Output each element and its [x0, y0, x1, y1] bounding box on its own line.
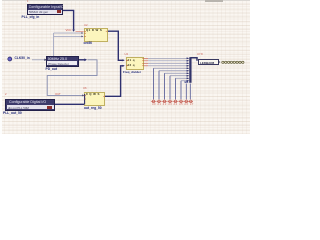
frequency divider U4 (yellow block)	[0, 0, 1, 1]
wire U5 output to U6 junction	[55, 103, 85, 105]
LED bar driver U7 label box	[198, 59, 219, 65]
LED D4	[167, 99, 172, 102]
bus net label B8	[185, 81, 189, 85]
net label PD_out	[46, 68, 58, 72]
bus entry row 8	[187, 75, 190, 77]
wire arrowhead at U2 clock pin	[72, 30, 75, 32]
LED bar segment 1	[222, 61, 224, 63]
bus entry row 2	[187, 60, 190, 62]
wire feedback loop U3 to register U6	[47, 60, 97, 96]
node CLK50 input terminal	[8, 57, 12, 61]
pin ticks U4 outputs	[142, 58, 144, 66]
wires bus taps vertical drops to LEDs D1-D6	[154, 68, 182, 99]
value label out_reg_50	[84, 107, 102, 111]
reference designator U6	[83, 88, 86, 91]
pin stub U2 pin 1	[76, 30, 84, 32]
arrowhead at U3 input	[44, 59, 46, 61]
reference designator U4	[125, 54, 128, 57]
LED D1	[151, 99, 156, 102]
value label Freq_divider	[123, 71, 141, 75]
reference designator 2 for U5	[5, 94, 7, 97]
LED D6	[178, 99, 183, 102]
wire input node to phase detector U3	[32, 59, 45, 61]
LED bar segment 5	[233, 61, 235, 63]
wire U6 output up to divider U4 pin 2	[105, 66, 124, 97]
wires bus taps horizontal runs	[154, 68, 188, 81]
wire junction vertical at U6 input	[84, 94, 86, 105]
net label VCC	[66, 29, 72, 32]
block U5 configurable digital IO (bottom left)	[0, 0, 1, 1]
net label PLL_cfg_in	[22, 16, 40, 20]
wire bus to LED bar U7	[190, 58, 197, 61]
wire U1 output to counter U2 clock pin	[63, 10, 74, 29]
wires bus end drops to LEDs D7-D8	[186, 84, 190, 100]
arrowhead at U6 feedback pin	[82, 94, 84, 96]
value labels d0-d7 under LEDs	[152, 104, 194, 107]
pin ticks U4 inputs	[126, 60, 128, 66]
pin stubs U4 outputs q0-q3	[144, 58, 148, 66]
reference designator U2	[84, 25, 87, 28]
net label OUT	[55, 94, 61, 97]
bus entry row 1	[187, 57, 190, 59]
LED D7	[184, 99, 189, 102]
bus entry row 7	[187, 72, 190, 74]
block U1 configurable input (top left)	[0, 0, 1, 1]
arrowhead on U3 output stub	[84, 58, 87, 61]
LED bar segment 3	[227, 61, 229, 63]
bus vertical bar	[189, 57, 191, 83]
arrowheads at U2 pins 2 and 3	[81, 32, 83, 37]
bus entry row 3	[187, 62, 190, 64]
wire U2 output to divider U4 pin 1	[108, 31, 124, 60]
LED D8	[189, 99, 193, 102]
bus entry row 9	[187, 77, 190, 79]
arrowhead at U4 pin 2	[122, 65, 124, 67]
pin ticks U2 pins 1-3	[84, 31, 86, 36]
reference designator 1 for U1	[27, 1, 29, 4]
wire U3 output stub	[79, 59, 85, 61]
LED D2	[156, 99, 161, 102]
LED D3	[162, 99, 167, 102]
wires U4 outputs to bus entries	[148, 58, 187, 66]
pin ticks U6 pins	[84, 95, 105, 99]
LED D5	[173, 99, 178, 102]
node label CLK50_in	[15, 57, 30, 61]
net label PLL_out_50	[3, 112, 22, 116]
bus entry row 5	[187, 67, 190, 69]
wire to U2 pin 2	[54, 32, 83, 34]
value label cnt50	[84, 42, 93, 46]
bus entry row 4	[187, 65, 190, 67]
LED bar segment 6	[236, 61, 238, 63]
LED bar segment 2	[225, 61, 227, 63]
LED bar segment 4	[230, 61, 232, 63]
reference designator U7	[197, 54, 203, 57]
arrowhead at LED bar U7 input	[219, 61, 221, 63]
arrowhead at U4 pin 1	[122, 59, 124, 61]
phase detector U3 (navy block)	[0, 0, 1, 1]
wire clock branch vertical segment	[53, 33, 55, 56]
output register U6 (yellow block)	[0, 0, 1, 1]
bus entry row 6	[187, 70, 190, 72]
wire to U2 pin 3	[54, 35, 83, 37]
LED bar segment 7	[239, 61, 241, 63]
pin tick U2 output pin	[106, 30, 108, 32]
bus entry row 10	[187, 80, 190, 82]
LED bar segment 8	[242, 61, 244, 63]
counter U2 (yellow block)	[0, 0, 1, 1]
